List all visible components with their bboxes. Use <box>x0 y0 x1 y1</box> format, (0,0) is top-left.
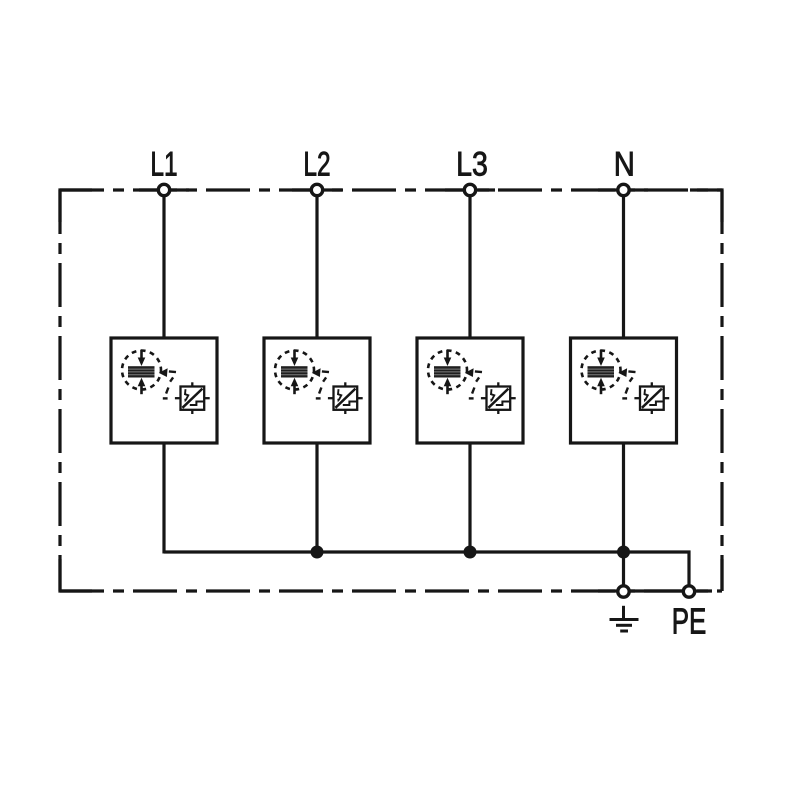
svg-text:PE: PE <box>672 601 707 641</box>
svg-text:L2: L2 <box>303 146 330 184</box>
svg-text:L1: L1 <box>150 146 177 184</box>
svg-text:N: N <box>614 144 635 183</box>
svg-text:L3: L3 <box>456 145 488 183</box>
